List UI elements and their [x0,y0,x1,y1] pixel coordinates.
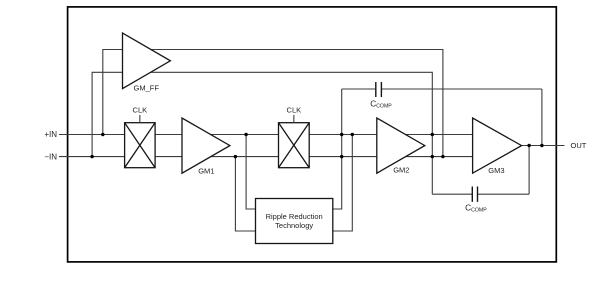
svg-text:Technology: Technology [275,221,313,230]
wire +IN input line [59,134,125,136]
chopper CH1 box with X [125,123,156,168]
wire GM_FF lower output across top then down to C_COMP2 left node [151,72,433,194]
node GM3 top input junction [431,133,434,136]
wire GM1 to chopper2 top [211,134,279,136]
op-amp GM1 [182,118,230,173]
svg-text:GM2: GM2 [393,166,409,175]
wire GM3 output to OUT [522,145,565,147]
wire +IN tap up to GM_FF noninverting input [103,50,123,135]
wire GM1 bottom output down to ripple box left lower [235,157,255,231]
svg-text:OUT: OUT [571,141,587,150]
wire GM1 to chopper2 bottom [211,156,279,158]
node GM3 bottom input junction B [441,155,444,158]
wire C_COMP2 line left segment [432,193,472,195]
wire chopper2 to GM2 top [309,134,377,136]
node -IN tap junction [90,155,93,158]
wire -IN tap up to GM_FF inverting input [92,72,122,156]
node +IN tap junction [101,133,104,136]
svg-text:GM_FF: GM_FF [134,84,160,93]
wire C_COMP2 right branch up to OUT node [528,146,530,195]
svg-text:CCOMP: CCOMP [370,98,392,109]
wire GM2 to GM3 bottom [406,156,473,158]
capacitor C_COMP (top) plates [376,82,382,97]
node chopper2 top output junction B [351,133,354,136]
svg-text:CCOMP: CCOMP [465,202,487,213]
wire C_COMP1 line right segment [381,88,542,90]
wire C_COMP1 right branch down to OUT node [541,89,543,146]
wire GM2 to GM3 top [405,134,472,136]
node GM1 top output junction [244,133,247,136]
outer boundary box [68,7,557,262]
CLK tick chopper1 [139,115,141,123]
CLK tick chopper2 [293,115,295,123]
wire C_COMP2 line right segment [478,193,530,195]
wire chopper2 top output down to ripple box right lower [333,135,353,232]
chopper CH2 box with X [279,123,310,168]
wire GM1 top output down to ripple box left upper [246,135,255,210]
op-amp GM_FF [123,33,171,89]
node OUT to C_COMP1 [540,144,543,147]
wire C_COMP1 left branch down to ripple box right [333,89,342,209]
wire GM_FF upper output across top then down to lower GM3 input node [151,50,443,157]
svg-text:CLK: CLK [133,106,148,115]
svg-text:−IN: −IN [44,152,57,161]
op-amp GM2 [377,118,425,173]
node chopper2 top output junction A [340,133,343,136]
wire chopper1 to GM1 top [155,134,182,136]
svg-text:CLK: CLK [287,106,302,115]
wire chopper1 to GM1 bottom [155,156,182,158]
svg-text:+IN: +IN [44,130,57,139]
node GM3 bottom input junction A [431,155,434,158]
svg-text:GM1: GM1 [198,166,214,175]
svg-text:GM3: GM3 [488,166,504,175]
capacitor C_COMP (bottom) plates [472,187,477,202]
wire C_COMP1 line left segment [342,88,376,90]
wire chopper2 to GM2 bottom [309,156,377,158]
wire -IN input line [59,156,125,158]
svg-text:Ripple Reduction: Ripple Reduction [266,212,323,221]
node OUT to C_COMP2 [527,144,530,147]
Ripple Reduction Technology box [256,199,333,244]
node GM1 bottom output junction [234,155,237,158]
op-amp GM3 [473,118,522,173]
node chopper2 bottom output junction [340,155,343,158]
